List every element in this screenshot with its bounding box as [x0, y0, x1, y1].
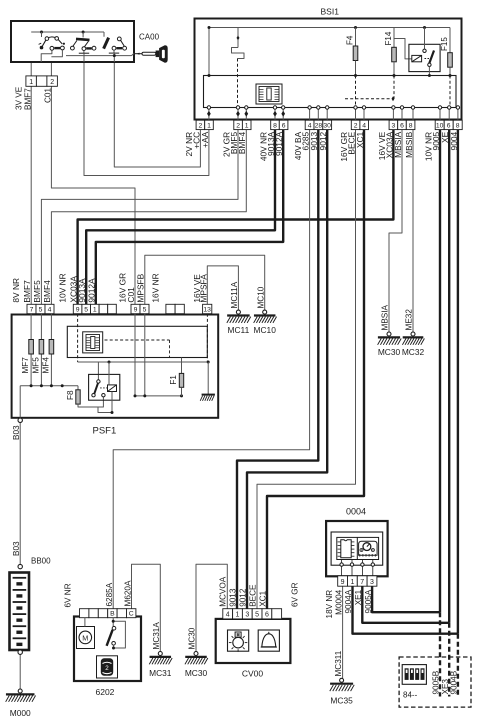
svg-text:10V NR: 10V NR: [57, 273, 67, 302]
svg-text:18V NR: 18V NR: [325, 590, 334, 619]
svg-text:9004: 9004: [449, 131, 459, 150]
svg-text:7: 7: [360, 579, 364, 586]
svg-text:M620A: M620A: [123, 580, 132, 606]
svg-text:0004: 0004: [346, 507, 366, 517]
svg-text:CA00: CA00: [139, 33, 160, 42]
svg-text:4: 4: [226, 612, 230, 619]
svg-text:8: 8: [409, 122, 413, 129]
svg-text:3V VE: 3V VE: [15, 86, 24, 110]
svg-text:MC31A: MC31A: [152, 622, 161, 650]
svg-text:MBSIB: MBSIB: [404, 131, 414, 157]
svg-text:6285A: 6285A: [105, 582, 114, 606]
svg-text:9005B: 9005B: [432, 670, 441, 694]
svg-text:MBSIA: MBSIA: [393, 131, 403, 157]
svg-text:XE1: XE1: [354, 589, 363, 605]
svg-text:BMF4: BMF4: [42, 280, 52, 303]
svg-text:10: 10: [436, 122, 444, 129]
svg-text:9012: 9012: [318, 131, 328, 150]
svg-text:F14: F14: [384, 31, 393, 45]
svg-text:5: 5: [143, 307, 147, 314]
svg-text:1: 1: [207, 122, 211, 129]
svg-text:M0004: M0004: [334, 589, 343, 614]
svg-text:5: 5: [255, 612, 259, 619]
svg-text:MF4: MF4: [42, 357, 51, 374]
svg-text:B03: B03: [12, 425, 21, 440]
svg-text:6V GR: 6V GR: [290, 582, 299, 607]
svg-text:8V NR: 8V NR: [11, 278, 21, 303]
svg-text:6202: 6202: [96, 687, 115, 697]
svg-text:9012A: 9012A: [274, 131, 284, 156]
svg-text:2: 2: [354, 122, 358, 129]
svg-text:BMF7: BMF7: [22, 280, 32, 303]
svg-text:F8: F8: [66, 390, 75, 400]
svg-text:B03: B03: [12, 541, 21, 556]
svg-text:84--: 84--: [403, 691, 418, 700]
svg-text:C01: C01: [44, 88, 53, 103]
svg-text:2: 2: [236, 122, 240, 129]
svg-text:2: 2: [105, 665, 109, 672]
svg-text:2: 2: [50, 79, 54, 86]
svg-text:8: 8: [456, 122, 460, 129]
svg-text:B: B: [110, 611, 115, 618]
svg-text:BSI1: BSI1: [321, 7, 340, 17]
svg-text:PSF1: PSF1: [93, 426, 117, 437]
svg-text:MC30: MC30: [185, 668, 208, 678]
svg-text:9: 9: [341, 579, 345, 586]
svg-text:MC11: MC11: [228, 325, 250, 335]
svg-text:1: 1: [350, 579, 354, 586]
svg-text:MPSFB: MPSFB: [136, 273, 146, 302]
svg-text:6: 6: [282, 122, 286, 129]
svg-text:MC30: MC30: [378, 347, 401, 357]
svg-text:XE3: XE3: [441, 679, 450, 695]
svg-text:MBSIA: MBSIA: [381, 304, 390, 330]
svg-text:3: 3: [245, 612, 249, 619]
svg-text:MC10: MC10: [256, 286, 265, 308]
svg-text:BMF5: BMF5: [32, 280, 42, 303]
svg-text:28: 28: [315, 122, 323, 129]
svg-text:9: 9: [76, 307, 80, 314]
svg-text:8: 8: [273, 122, 277, 129]
svg-text:9013: 9013: [229, 588, 238, 607]
svg-text:9013A: 9013A: [77, 278, 87, 303]
svg-text:1: 1: [245, 122, 249, 129]
svg-text:MCVOA: MCVOA: [219, 576, 228, 607]
svg-text:BB00: BB00: [31, 557, 51, 566]
svg-text:+AA: +AA: [200, 131, 210, 147]
svg-text:4: 4: [308, 122, 312, 129]
svg-text:3: 3: [370, 579, 374, 586]
svg-text:C: C: [129, 611, 134, 618]
svg-text:6: 6: [400, 122, 404, 129]
svg-text:BMF7: BMF7: [23, 88, 32, 110]
svg-text:MF5: MF5: [31, 357, 40, 374]
svg-text:BECE: BECE: [249, 584, 258, 607]
svg-text:XC1: XC1: [259, 590, 268, 606]
svg-text:MC311: MC311: [334, 650, 343, 676]
svg-text:C01: C01: [126, 287, 136, 303]
svg-text:MF7: MF7: [21, 357, 30, 374]
svg-text:MC35: MC35: [330, 696, 353, 706]
svg-text:6: 6: [265, 612, 269, 619]
svg-text:ME32: ME32: [405, 309, 414, 331]
svg-text:9012A: 9012A: [87, 278, 97, 303]
svg-text:F1: F1: [169, 375, 178, 385]
svg-text:9012: 9012: [239, 588, 248, 607]
svg-text:6V NR: 6V NR: [64, 583, 73, 607]
svg-text:MC30: MC30: [188, 627, 197, 649]
svg-text:F4: F4: [345, 35, 354, 45]
svg-text:CV00: CV00: [242, 669, 264, 679]
svg-text:13: 13: [203, 307, 211, 314]
svg-text:XC1: XC1: [355, 131, 365, 148]
svg-text:4: 4: [362, 122, 366, 129]
svg-text:30: 30: [323, 122, 331, 129]
svg-text:1: 1: [236, 612, 240, 619]
svg-text:16V NR: 16V NR: [150, 273, 160, 302]
svg-text:MC32: MC32: [402, 347, 425, 357]
svg-text:9: 9: [134, 307, 138, 314]
svg-text:M: M: [82, 633, 88, 642]
svg-text:9005A: 9005A: [364, 589, 373, 613]
svg-text:MC10: MC10: [254, 325, 277, 335]
svg-text:3: 3: [392, 122, 396, 129]
svg-text:1: 1: [93, 307, 97, 314]
svg-text:2: 2: [199, 122, 203, 129]
svg-text:MC31: MC31: [149, 668, 172, 678]
svg-text:9004A: 9004A: [344, 589, 353, 613]
svg-text:M000: M000: [10, 708, 31, 718]
svg-text:BMF4: BMF4: [237, 131, 247, 154]
svg-text:MC11A: MC11A: [230, 281, 239, 308]
svg-text:9004B: 9004B: [450, 670, 459, 694]
svg-text:5: 5: [84, 307, 88, 314]
svg-text:7: 7: [30, 307, 34, 314]
svg-text:5: 5: [39, 307, 43, 314]
svg-text:6: 6: [447, 122, 451, 129]
svg-text:MPSFA: MPSFA: [198, 274, 208, 303]
svg-text:1: 1: [29, 79, 33, 86]
svg-text:F15: F15: [440, 37, 449, 51]
svg-text:4: 4: [48, 307, 52, 314]
